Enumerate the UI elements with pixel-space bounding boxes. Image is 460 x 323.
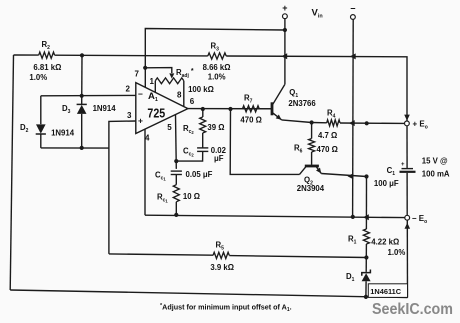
label 4.7 Ohm: [318, 131, 337, 140]
wire arrow into +Eo terminal: [404, 115, 410, 121]
label 2N3904: [297, 184, 325, 193]
node junction Rc2 tap: [201, 107, 205, 111]
svg-text:R7: R7: [244, 94, 253, 105]
node junction pin5/Cc1/Cc2: [174, 159, 178, 163]
wire Radj wiper: [145, 68, 172, 73]
transistor Q2 emitter: [316, 167, 321, 174]
svg-text:− Eo: − Eo: [412, 214, 427, 225]
label plus input sign: [138, 116, 143, 126]
node junction +Eo line to R1 branch: [365, 121, 369, 125]
label 4.22 kOhm: [371, 237, 399, 246]
wire +Vin vertical down to Q1 collector: [284, 19, 286, 85]
wire clamp bottom line to pin-3 vertical: [41, 147, 109, 149]
transistor Q1 base bar: [271, 102, 274, 115]
svg-text:Cc2: Cc2: [183, 147, 194, 158]
label 470 Ohm for R6: [317, 145, 338, 154]
label C1: [387, 166, 396, 177]
wire pin 4 to -Eo line: [144, 129, 146, 215]
wire top rail R3 to +Eo drop corner: [226, 56, 407, 121]
svg-text:R6: R6: [294, 144, 303, 155]
svg-text:+ Eo: + Eo: [413, 120, 428, 131]
wire +Eo down to C1: [406, 126, 408, 168]
label R2: [42, 40, 51, 51]
svg-text:1.0%: 1.0%: [208, 73, 226, 82]
svg-text:+: +: [282, 3, 287, 13]
node junction Q2 base tap: [228, 107, 232, 111]
label Q2: [304, 176, 313, 187]
label Rc2: [183, 124, 194, 135]
node junction R5 to R1/D1: [364, 255, 368, 259]
wire left vertical (R2 left to bottom rail): [10, 55, 13, 290]
label Cc1: [155, 171, 166, 182]
crossover arrow -Vin over top rail: [350, 53, 356, 59]
wire Rc2 top: [202, 109, 204, 117]
label 1.0% for R3: [208, 73, 226, 82]
wire R1 to D1: [365, 244, 367, 272]
resistor R3: [208, 53, 226, 59]
capacitor Cc1: [171, 171, 182, 174]
diode D1 zener (cathode bar with hooks): [362, 270, 371, 282]
footnote adjust text: [160, 303, 292, 314]
svg-text:1: 1: [150, 77, 155, 86]
label Cc2: [183, 147, 194, 158]
svg-text:6.81 kΩ: 6.81 kΩ: [33, 63, 61, 72]
svg-text:Rc1: Rc1: [157, 193, 168, 204]
node junction D1 on bottom rail: [364, 295, 368, 299]
svg-text:1N914: 1N914: [93, 104, 117, 113]
transistor Q1 emitter arrow: [276, 115, 282, 120]
svg-text:R5: R5: [216, 241, 225, 252]
wire -Vin vertical down to -Eo line: [352, 20, 355, 217]
wire R5 line right: [229, 256, 366, 258]
op-amp A1 triangle: [136, 83, 188, 134]
label Vin: [312, 8, 323, 20]
svg-text:470 Ω: 470 Ω: [240, 116, 261, 125]
label R3: [211, 42, 220, 53]
svg-text:4.22 kΩ: 4.22 kΩ: [371, 237, 399, 246]
resistor R7: [243, 106, 260, 112]
label R6: [294, 144, 303, 155]
resistor R5: [213, 252, 229, 258]
resistor R6: [309, 139, 315, 153]
label D3: [62, 104, 71, 115]
wire Rc1 bottom to -Eo line: [175, 202, 177, 215]
wire top rail left segment with corner to left vertical: [14, 54, 39, 56]
label 100 mA: [422, 170, 450, 179]
label 100 uF: [374, 179, 399, 188]
wire Cc2 bottom to pin-5 node: [176, 151, 202, 161]
svg-text:4.7 Ω: 4.7 Ω: [318, 131, 337, 140]
svg-text:Q1: Q1: [289, 88, 298, 99]
label - (minus terminal): [350, 4, 355, 14]
wire pin 1: [154, 81, 156, 93]
pin 4 label: [145, 134, 150, 143]
wire bottom-right vertical up to -Eo: [406, 220, 408, 298]
wire pin 5 down: [175, 115, 178, 169]
label D1: [346, 272, 355, 283]
node junction D3 bottom: [80, 146, 84, 150]
label 0.02 uF: [211, 146, 227, 163]
resistor Rc2: [200, 117, 206, 133]
wire Q1 emitter to R4 node: [282, 120, 312, 123]
wire D1 to bottom rail: [365, 281, 367, 297]
svg-text:Rc2: Rc2: [183, 124, 194, 135]
label 0.05 uF: [186, 170, 213, 179]
wire R4 right to +Eo: [340, 122, 405, 124]
label R4: [327, 109, 336, 120]
label A1: [148, 91, 158, 103]
wire R6 bottom to Q2 collector: [311, 152, 313, 165]
wire D2 branch vertical: [40, 96, 42, 124]
label 470 Ohm for R7: [240, 116, 261, 125]
capacitor C1 electrolytic: [400, 162, 416, 172]
label box 1N4611C: [368, 284, 407, 298]
label Rc1: [157, 193, 168, 204]
pin 2 label: [126, 85, 131, 94]
svg-text:+: +: [138, 116, 143, 126]
svg-text:−: −: [138, 89, 143, 99]
svg-text:SeekIC.com: SeekIC.com: [372, 301, 453, 318]
wire D3 to bottom clamp line: [81, 114, 83, 148]
transistor Q2 base lead: [300, 167, 307, 175]
transistor Q2 emitter arrow: [316, 168, 321, 174]
wire Cc1 to Rc1: [175, 175, 177, 185]
wire Q2 emitter line to R1 branch: [321, 174, 366, 177]
svg-text:1N4611C: 1N4611C: [370, 287, 401, 296]
svg-text:R2: R2: [42, 40, 51, 51]
svg-text:8.66 kΩ: 8.66 kΩ: [203, 63, 231, 72]
svg-text:3: 3: [127, 111, 132, 120]
wire D2 to bottom clamp line: [40, 134, 42, 148]
label 1.0% for R1: [388, 248, 406, 257]
svg-text:4: 4: [145, 134, 150, 143]
svg-text:D2: D2: [20, 123, 29, 134]
diode D3 (cathode bar up): [77, 104, 87, 114]
wire D3 branch vertical: [81, 55, 83, 104]
svg-text:5: 5: [167, 123, 172, 132]
wire -Eo line from pin 4 to -Eo terminal: [145, 215, 405, 217]
label 1N914 for D3: [93, 104, 117, 113]
capacitor Cc2: [197, 148, 208, 152]
svg-text:2: 2: [126, 85, 131, 94]
crossover arrow -Vin over Q2 emitter line: [348, 173, 354, 179]
svg-text:2N3766: 2N3766: [288, 99, 316, 108]
crossover arrow -Vin over +Eo line: [349, 120, 355, 126]
label minus input sign: [138, 89, 143, 99]
label R7: [244, 94, 253, 105]
node junction D3 top on pin-2 line: [80, 94, 84, 98]
wire R4 left: [312, 122, 327, 124]
label 10 Ohm: [183, 192, 200, 201]
resistor Rc1: [173, 185, 179, 202]
svg-text:D3: D3: [62, 104, 71, 115]
wire bottom rail: [10, 290, 407, 298]
node junction Q1 emitter / R4 / R6: [310, 120, 314, 124]
pin 5 label: [167, 123, 172, 132]
label 100 kOhm: [188, 85, 214, 94]
svg-text:D1: D1: [346, 272, 355, 283]
wire top rail R2 to R3: [55, 54, 208, 57]
watermark SeekIC.com: [372, 301, 453, 318]
svg-text:1N914: 1N914: [51, 129, 75, 138]
svg-text:Cc1: Cc1: [155, 171, 166, 182]
transistor Q1 emitter: [273, 113, 282, 120]
node junction +Vin to op-amp V+ line: [283, 28, 287, 32]
svg-text:Radj *: Radj *: [176, 68, 194, 79]
svg-text:100 μF: 100 μF: [374, 179, 399, 188]
svg-text:0.05 μF: 0.05 μF: [186, 170, 213, 179]
label 8.66 kOhm: [203, 63, 231, 72]
terminal - Vin: [351, 15, 356, 20]
svg-text:1.0%: 1.0%: [388, 248, 406, 257]
wire pin 2 input line: [41, 94, 136, 96]
svg-text:1.0%: 1.0%: [29, 73, 47, 82]
wire Rc2 to Cc2: [202, 133, 204, 148]
crossover arrow +Vin over top rail: [281, 53, 287, 59]
terminal +Eo: [405, 121, 410, 126]
label 1N914 for D2: [51, 129, 75, 138]
transistor Q2 base bar: [305, 165, 319, 168]
label 1.0% for R2: [29, 73, 47, 82]
svg-text:3.9 kΩ: 3.9 kΩ: [210, 263, 234, 272]
label 2N3766: [288, 99, 316, 108]
svg-text:39 Ω: 39 Ω: [207, 123, 224, 132]
pin 7 label: [134, 70, 139, 79]
resistor R4: [327, 120, 340, 126]
wire R5 line left: [109, 254, 213, 255]
label R5: [216, 241, 225, 252]
wire arrow into -Eo terminal: [405, 223, 411, 229]
resistor R1: [363, 229, 369, 244]
svg-text:R1: R1: [348, 235, 357, 246]
svg-text:*Adjust for minimum input offs: *Adjust for minimum input offset of A1.: [160, 303, 292, 314]
svg-text:10 Ω: 10 Ω: [183, 192, 200, 201]
label 3.9 kOhm: [210, 263, 234, 272]
label + Eo: [413, 120, 428, 131]
wire C1 to -Eo: [406, 173, 408, 216]
svg-text:8: 8: [177, 90, 182, 99]
svg-text:725: 725: [147, 107, 165, 121]
svg-text:R3: R3: [211, 42, 220, 53]
pin 3 label: [127, 111, 132, 120]
label 6.81 kOhm: [33, 63, 61, 72]
node junction R2/R3 tap to D3 and pin 2: [80, 53, 84, 57]
wire R1 branch vertical upper: [365, 177, 367, 230]
svg-text:C1: C1: [387, 166, 396, 177]
label D2: [20, 123, 29, 134]
resistor R2: [39, 52, 55, 58]
node junction -Vin to -Eo line: [351, 215, 355, 219]
resistor Radj (100k pot): [155, 78, 184, 84]
node junction Radj wiper tap on V+ line: [143, 66, 147, 70]
diode D2 (cathode bar down): [36, 124, 46, 134]
svg-text:6: 6: [190, 97, 195, 106]
wire pin 6 output line: [188, 108, 273, 110]
wire Q2 base line to pin-6 tap: [230, 109, 299, 174]
svg-text:+: +: [401, 162, 405, 168]
crossover arrow R1 branch over -Eo line: [363, 214, 369, 220]
svg-text:100 mA: 100 mA: [422, 170, 450, 179]
wiper arrow onto Radj: [169, 73, 174, 78]
svg-text:470 Ω: 470 Ω: [317, 145, 338, 154]
svg-text:−: −: [350, 4, 355, 14]
svg-text:μF: μF: [214, 154, 224, 163]
svg-text:2N3904: 2N3904: [297, 184, 325, 193]
label 725: [147, 107, 165, 121]
node junction Rc1 bottom on -Eo line: [174, 213, 178, 217]
label Radj*: [176, 68, 194, 79]
pin 1 label: [150, 77, 155, 86]
svg-text:100 kΩ: 100 kΩ: [188, 85, 214, 94]
terminal -Eo: [405, 215, 410, 220]
svg-text:7: 7: [134, 70, 139, 79]
wire R6 top: [311, 123, 313, 139]
wire pin 8: [183, 81, 185, 107]
transistor Q1 collector: [273, 85, 285, 105]
label 15 V @: [422, 157, 448, 166]
wire pin 3 input line: [109, 121, 136, 254]
pin 6 label: [190, 97, 195, 106]
wire R7 to Q1 base: [259, 108, 271, 110]
pin 8 label: [177, 90, 182, 99]
svg-text:15 V @: 15 V @: [422, 157, 448, 166]
svg-text:Vin: Vin: [312, 8, 323, 20]
terminal + Vin: [283, 14, 288, 19]
node junction Q2 emitter / R1 branch: [364, 174, 368, 178]
label - Eo: [412, 214, 427, 225]
label 39 Ohm: [207, 123, 224, 132]
wire V+ supply line to pin 7: [145, 29, 285, 88]
label + (plus terminal): [282, 3, 287, 13]
label Q1: [289, 88, 298, 99]
label R1: [348, 235, 357, 246]
